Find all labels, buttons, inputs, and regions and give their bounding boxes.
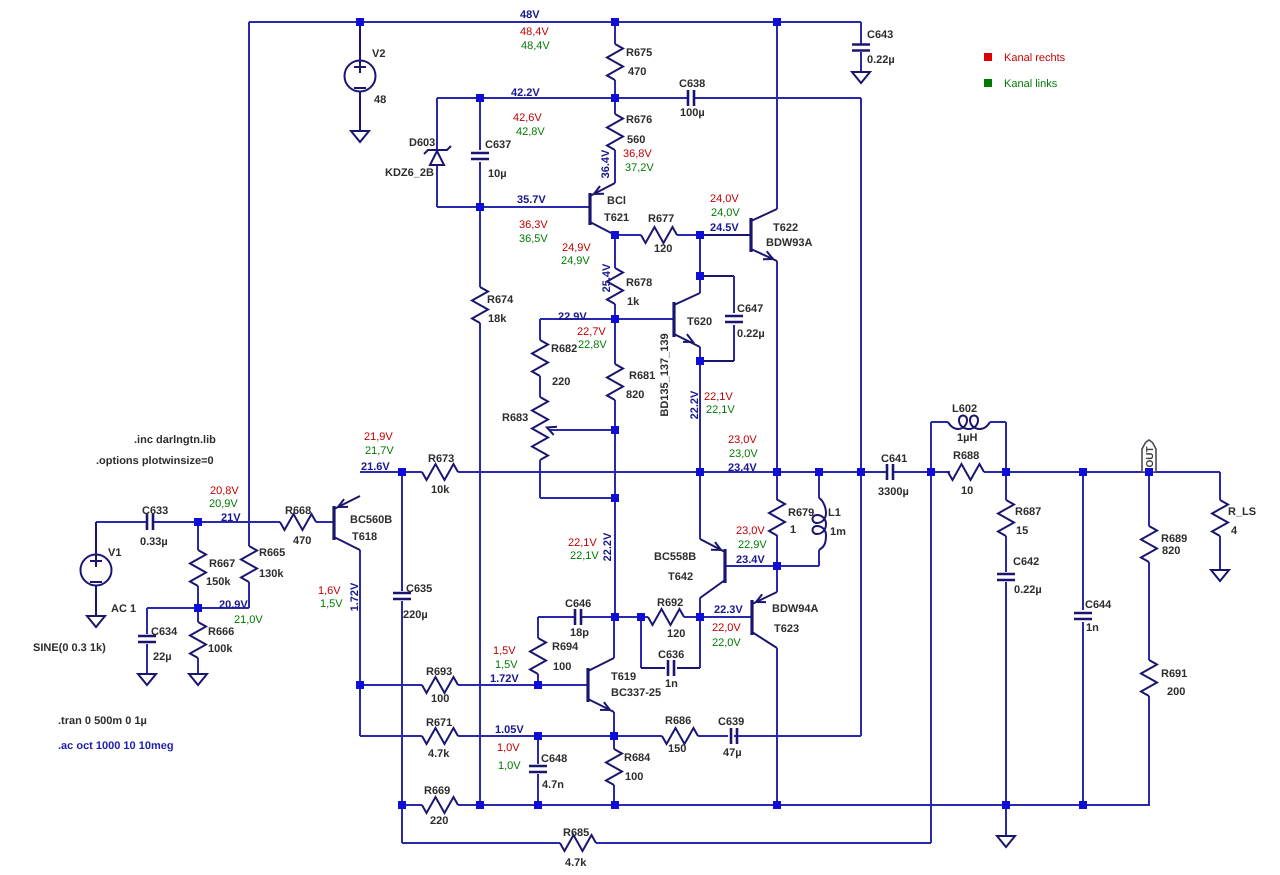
svg-text:.inc darlngtn.lib: .inc darlngtn.lib xyxy=(134,434,216,446)
wire 48V top rail xyxy=(249,21,861,23)
svg-text:1n: 1n xyxy=(1086,622,1099,634)
svg-text:R679: R679 xyxy=(788,507,814,519)
svg-text:V2: V2 xyxy=(372,48,385,60)
resistor R677 xyxy=(615,213,700,255)
svg-text:R686: R686 xyxy=(665,715,691,727)
wire T620 collector link xyxy=(699,235,701,293)
svg-text:37,2V: 37,2V xyxy=(625,162,654,174)
resistor R665 xyxy=(241,546,285,608)
svg-text:220: 220 xyxy=(430,815,448,827)
svg-text:R682: R682 xyxy=(551,343,577,355)
svg-text:42,8V: 42,8V xyxy=(516,126,545,138)
svg-text:R691: R691 xyxy=(1161,668,1187,680)
spice directive .options xyxy=(96,455,214,467)
svg-text:22µ: 22µ xyxy=(153,651,172,663)
capacitor C642 xyxy=(997,556,1042,596)
svg-text:C636: C636 xyxy=(658,649,684,661)
svg-text:R683: R683 xyxy=(502,412,528,424)
svg-text:C633: C633 xyxy=(142,505,168,517)
svg-text:18k: 18k xyxy=(488,313,507,325)
ground under C643 xyxy=(852,72,870,83)
svg-text:10: 10 xyxy=(961,485,973,497)
svg-text:4.7n: 4.7n xyxy=(542,779,564,791)
ground under C634 xyxy=(138,674,156,685)
wire T622 emitter column xyxy=(776,261,778,472)
measurement labels red xyxy=(210,26,765,754)
svg-text:BC337-25: BC337-25 xyxy=(611,687,661,699)
voltage source V2 xyxy=(345,22,387,131)
capacitor C635 xyxy=(393,583,432,621)
resistor R693 xyxy=(422,666,458,705)
svg-text:130k: 130k xyxy=(259,568,284,580)
svg-text:C648: C648 xyxy=(541,753,567,765)
resistor R691 xyxy=(1141,660,1187,805)
svg-text:R_LS: R_LS xyxy=(1228,506,1256,518)
svg-text:BDW93A: BDW93A xyxy=(766,237,813,249)
svg-text:R675: R675 xyxy=(626,47,652,59)
wire main output rail 21.6V-23.4V xyxy=(360,471,1220,473)
transistor T619 BC337-25 NPN xyxy=(588,658,661,712)
wire feedback column x480 xyxy=(479,207,481,805)
svg-text:220µ: 220µ xyxy=(403,609,428,621)
wire T642 collector / C636 column xyxy=(699,598,701,668)
wire T642 base row xyxy=(725,565,777,567)
svg-text:560: 560 xyxy=(627,134,645,146)
svg-text:R685: R685 xyxy=(563,827,589,839)
svg-text:36,5V: 36,5V xyxy=(519,233,548,245)
svg-text:1,0V: 1,0V xyxy=(497,742,520,754)
wire C646/R692 row xyxy=(538,616,700,618)
svg-text:22.2V: 22.2V xyxy=(602,532,614,561)
svg-text:AC 1: AC 1 xyxy=(111,603,136,615)
svg-text:R666: R666 xyxy=(208,626,234,638)
svg-text:1m: 1m xyxy=(830,526,846,538)
spice directive .ac xyxy=(58,740,174,752)
svg-text:820: 820 xyxy=(1162,545,1180,557)
svg-text:22,0V: 22,0V xyxy=(712,637,741,649)
svg-text:470: 470 xyxy=(293,535,311,547)
resistor R671 xyxy=(422,717,458,760)
svg-text:.ac oct 1000 10 10meg: .ac oct 1000 10 10meg xyxy=(58,740,174,752)
label BD135_137_139 xyxy=(659,333,671,416)
svg-text:C639: C639 xyxy=(718,716,744,728)
wire R685 row xyxy=(402,842,931,844)
svg-text:C641: C641 xyxy=(881,453,907,465)
svg-text:21.6V: 21.6V xyxy=(361,461,390,473)
svg-text:1,5V: 1,5V xyxy=(493,645,516,657)
inductor L602 xyxy=(931,403,1006,472)
svg-text:Kanal rechts: Kanal rechts xyxy=(1004,52,1066,64)
legend Kanal rechts xyxy=(984,52,1066,64)
svg-text:18p: 18p xyxy=(570,627,589,639)
svg-text:V1: V1 xyxy=(108,547,121,559)
svg-text:R687: R687 xyxy=(1015,506,1041,518)
svg-text:100µ: 100µ xyxy=(680,107,705,119)
capacitor C648 xyxy=(529,736,567,805)
resistor R687 xyxy=(998,472,1041,572)
resistor R682 xyxy=(532,319,577,397)
wire 20.9V row xyxy=(147,607,249,609)
svg-text:24,0V: 24,0V xyxy=(711,207,740,219)
resistor R669 xyxy=(422,785,458,827)
svg-text:23,0V: 23,0V xyxy=(728,434,757,446)
svg-text:1µH: 1µH xyxy=(957,432,977,444)
svg-text:24,9V: 24,9V xyxy=(561,255,590,267)
svg-text:BCl: BCl xyxy=(607,195,626,207)
svg-text:48V: 48V xyxy=(520,9,540,21)
svg-text:.tran 0 500m 0 1µ: .tran 0 500m 0 1µ xyxy=(58,715,147,727)
resistor R684 xyxy=(606,736,651,805)
svg-text:36,3V: 36,3V xyxy=(519,219,548,231)
svg-text:36,8V: 36,8V xyxy=(623,148,652,160)
svg-text:24,9V: 24,9V xyxy=(562,242,591,254)
svg-text:22.3V: 22.3V xyxy=(714,604,743,616)
svg-text:SINE(0 0.3 1k): SINE(0 0.3 1k) xyxy=(33,642,106,654)
svg-text:T622: T622 xyxy=(773,222,798,234)
svg-text:R694: R694 xyxy=(552,641,579,653)
wire T623 base row xyxy=(700,616,752,618)
svg-text:R681: R681 xyxy=(629,370,655,382)
svg-text:20.9V: 20.9V xyxy=(219,599,248,611)
svg-text:10µ: 10µ xyxy=(488,168,507,180)
svg-text:24.5V: 24.5V xyxy=(710,222,739,234)
svg-text:24,0V: 24,0V xyxy=(710,193,739,205)
svg-text:20,8V: 20,8V xyxy=(210,485,239,497)
wire 35.7V rail xyxy=(437,206,590,208)
wire ground return row xyxy=(402,804,1150,806)
ground under V2 xyxy=(351,131,369,142)
svg-text:R688: R688 xyxy=(953,450,979,462)
ground under R_LS xyxy=(1211,570,1229,581)
svg-text:22,9V: 22,9V xyxy=(738,539,767,551)
svg-text:R668: R668 xyxy=(285,505,311,517)
inductor L1 xyxy=(813,472,847,566)
wire T623 collector column xyxy=(776,648,778,805)
svg-text:R678: R678 xyxy=(626,277,652,289)
svg-text:R673: R673 xyxy=(428,453,454,465)
wire wiper link xyxy=(549,429,615,431)
svg-text:22,1V: 22,1V xyxy=(568,537,597,549)
voltage source V1 xyxy=(33,522,136,654)
wire T618 collector down xyxy=(359,550,361,736)
svg-text:T623: T623 xyxy=(774,623,799,635)
svg-text:25.4V: 25.4V xyxy=(601,263,613,292)
output port OUT xyxy=(1142,440,1156,472)
svg-text:42.2V: 42.2V xyxy=(511,87,540,99)
svg-text:C646: C646 xyxy=(565,598,591,610)
svg-text:T620: T620 xyxy=(687,316,712,328)
svg-text:L602: L602 xyxy=(952,403,977,415)
svg-text:22,0V: 22,0V xyxy=(712,622,741,634)
wire C635 column xyxy=(401,472,403,843)
svg-text:21,0V: 21,0V xyxy=(234,614,263,626)
ground under R666 xyxy=(189,674,207,685)
svg-text:C644: C644 xyxy=(1085,599,1112,611)
resistor R666 xyxy=(190,608,234,674)
capacitor C647 xyxy=(700,276,765,361)
wire right bootstrap rail xyxy=(860,98,862,736)
zener diode D603 xyxy=(385,98,451,207)
svg-text:0.22µ: 0.22µ xyxy=(737,328,765,340)
wire T620 emitter / T642 emitter column xyxy=(699,347,701,539)
svg-text:150k: 150k xyxy=(206,576,231,588)
svg-text:1.05V: 1.05V xyxy=(495,724,524,736)
wire 1.72V row xyxy=(360,684,588,686)
wire T623 emitter link xyxy=(776,566,778,592)
svg-text:100k: 100k xyxy=(208,643,233,655)
svg-text:T618: T618 xyxy=(352,531,377,543)
svg-text:35.7V: 35.7V xyxy=(517,194,546,206)
svg-text:C643: C643 xyxy=(867,29,893,41)
transistor T622 BDW93A NPN xyxy=(700,209,813,261)
svg-text:4.7k: 4.7k xyxy=(428,748,450,760)
svg-text:22,1V: 22,1V xyxy=(706,404,735,416)
resistor R674 xyxy=(472,287,514,325)
svg-text:R677: R677 xyxy=(648,213,674,225)
svg-text:23,0V: 23,0V xyxy=(736,525,765,537)
svg-text:120: 120 xyxy=(654,243,672,255)
ground under V1 xyxy=(87,616,105,627)
capacitor C644 xyxy=(1074,472,1112,805)
svg-text:R665: R665 xyxy=(259,547,285,559)
svg-text:150: 150 xyxy=(668,743,686,755)
svg-text:48,4V: 48,4V xyxy=(520,26,549,38)
wire R683 bottom link xyxy=(540,497,615,499)
wire L1 bottom row xyxy=(777,565,819,567)
svg-text:23,0V: 23,0V xyxy=(729,448,758,460)
transistor T623 BDW94A PNP xyxy=(752,592,819,648)
resistor R668 xyxy=(280,505,316,547)
svg-text:R689: R689 xyxy=(1161,533,1187,545)
resistor R673 xyxy=(422,453,458,496)
resistor R681 xyxy=(607,319,655,430)
svg-text:22,8V: 22,8V xyxy=(578,339,607,351)
wire 22.2V segment xyxy=(614,430,616,617)
svg-text:42,6V: 42,6V xyxy=(513,112,542,124)
svg-text:3300µ: 3300µ xyxy=(878,486,909,498)
transistor T621 BC.. PNP xyxy=(590,183,629,235)
resistor R686 xyxy=(662,715,698,755)
svg-text:1,6V: 1,6V xyxy=(318,585,341,597)
svg-text:47µ: 47µ xyxy=(723,747,742,759)
capacitor C638 xyxy=(679,78,705,119)
svg-text:4.7k: 4.7k xyxy=(565,857,587,869)
svg-text:T619: T619 xyxy=(611,671,636,683)
svg-text:R692: R692 xyxy=(657,597,683,609)
potentiometer R683 xyxy=(502,397,557,498)
svg-text:1: 1 xyxy=(790,524,796,536)
svg-text:22,1V: 22,1V xyxy=(570,550,599,562)
svg-text:R667: R667 xyxy=(209,558,235,570)
wire T619 collector link xyxy=(613,617,615,658)
svg-text:10k: 10k xyxy=(431,484,450,496)
svg-text:L1: L1 xyxy=(828,507,841,519)
legend Kanal links xyxy=(984,78,1058,90)
svg-text:0.22µ: 0.22µ xyxy=(1014,584,1042,596)
svg-text:T621: T621 xyxy=(604,212,629,224)
wire input 21V row xyxy=(96,521,334,523)
capacitor C643 xyxy=(852,22,895,72)
svg-text:R693: R693 xyxy=(426,666,452,678)
svg-text:1,5V: 1,5V xyxy=(320,598,343,610)
transistor T618 BC560B PNP xyxy=(334,496,392,550)
svg-text:D603: D603 xyxy=(409,137,435,149)
capacitor C641 xyxy=(878,453,909,498)
resistor R676 xyxy=(607,98,652,183)
svg-text:48,4V: 48,4V xyxy=(521,40,550,52)
capacitor C637 xyxy=(471,98,511,207)
transistor T642 BC558B PNP xyxy=(654,539,725,598)
resistor R694 xyxy=(530,617,579,685)
transistor T620 BD135 NPN xyxy=(674,293,712,347)
svg-text:48: 48 xyxy=(374,94,386,106)
measurement labels green xyxy=(209,40,767,772)
svg-text:C638: C638 xyxy=(679,78,705,90)
wire left rail down to R665 xyxy=(248,22,250,546)
resistor R679 xyxy=(769,472,814,566)
spice directive .tran xyxy=(58,715,147,727)
svg-text:R676: R676 xyxy=(626,114,652,126)
svg-text:R671: R671 xyxy=(426,717,452,729)
svg-text:15: 15 xyxy=(1016,525,1028,537)
wire T622 collector column xyxy=(776,22,778,209)
resistor R685 xyxy=(560,827,596,869)
svg-text:22.9V: 22.9V xyxy=(558,311,587,323)
svg-text:C634: C634 xyxy=(151,626,178,638)
svg-text:C635: C635 xyxy=(406,583,432,595)
svg-text:100: 100 xyxy=(625,771,643,783)
wire 1.05V row xyxy=(360,735,861,737)
resistor R_LS xyxy=(1212,472,1256,570)
svg-text:21,7V: 21,7V xyxy=(365,445,394,457)
svg-text:R674: R674 xyxy=(487,294,514,306)
svg-text:BC558B: BC558B xyxy=(654,551,696,563)
svg-text:1k: 1k xyxy=(627,296,640,308)
svg-text:R669: R669 xyxy=(424,785,450,797)
ground under C642 xyxy=(997,582,1015,847)
svg-text:KDZ6_2B: KDZ6_2B xyxy=(385,167,434,179)
svg-text:200: 200 xyxy=(1167,686,1185,698)
svg-text:BDW94A: BDW94A xyxy=(772,603,819,615)
svg-text:22,7V: 22,7V xyxy=(577,326,606,338)
resistor R675 xyxy=(607,22,652,98)
svg-text:C637: C637 xyxy=(485,139,511,151)
svg-text:1.72V: 1.72V xyxy=(490,673,519,685)
net labels blue xyxy=(219,9,765,736)
svg-text:21,9V: 21,9V xyxy=(364,431,393,443)
spice directive .inc xyxy=(134,434,216,446)
resistor R667 xyxy=(190,522,235,608)
resistor R688 xyxy=(948,450,984,497)
wire 22.9V rail xyxy=(540,318,674,320)
svg-text:OUT: OUT xyxy=(1145,446,1156,467)
svg-text:23.4V: 23.4V xyxy=(736,554,765,566)
capacitor C639 xyxy=(718,716,744,759)
svg-text:4: 4 xyxy=(1231,525,1238,537)
capacitor C636 xyxy=(641,617,700,690)
svg-text:1,5V: 1,5V xyxy=(495,659,518,671)
resistor R678 xyxy=(607,235,652,319)
svg-text:220: 220 xyxy=(552,376,570,388)
svg-text:36.4V: 36.4V xyxy=(600,149,612,178)
svg-text:120: 120 xyxy=(667,628,685,640)
svg-text:22.2V: 22.2V xyxy=(689,390,701,419)
svg-text:820: 820 xyxy=(626,389,644,401)
svg-text:BD135_137_139: BD135_137_139 xyxy=(659,333,671,416)
capacitor C634 xyxy=(138,608,178,674)
svg-text:1.72V: 1.72V xyxy=(349,582,361,611)
svg-text:.options plotwinsize=0: .options plotwinsize=0 xyxy=(96,455,214,467)
rotated net labels xyxy=(349,149,701,611)
svg-text:BC560B: BC560B xyxy=(350,514,392,526)
svg-text:22,1V: 22,1V xyxy=(704,391,733,403)
svg-text:T642: T642 xyxy=(668,571,693,583)
svg-text:20,9V: 20,9V xyxy=(209,498,238,510)
svg-text:21V: 21V xyxy=(221,512,241,524)
svg-text:C647: C647 xyxy=(737,303,763,315)
svg-text:R684: R684 xyxy=(624,752,651,764)
capacitor C646 xyxy=(565,598,591,639)
capacitor C633 xyxy=(140,505,168,548)
wire T619 emitter link xyxy=(613,712,615,736)
svg-text:1n: 1n xyxy=(665,678,678,690)
svg-text:Kanal links: Kanal links xyxy=(1004,78,1058,90)
resistor R689 xyxy=(1141,472,1187,660)
svg-text:23.4V: 23.4V xyxy=(728,462,757,474)
svg-text:470: 470 xyxy=(628,66,646,78)
wire 42.2V rail xyxy=(437,97,861,99)
svg-text:C642: C642 xyxy=(1013,556,1039,568)
wire bootstrap column x931 xyxy=(930,472,932,843)
svg-text:1,0V: 1,0V xyxy=(498,760,521,772)
svg-text:0.22µ: 0.22µ xyxy=(867,54,895,66)
svg-text:100: 100 xyxy=(431,693,449,705)
svg-text:0.33µ: 0.33µ xyxy=(140,536,168,548)
resistor R692 xyxy=(648,597,685,640)
svg-text:100: 100 xyxy=(553,661,571,673)
